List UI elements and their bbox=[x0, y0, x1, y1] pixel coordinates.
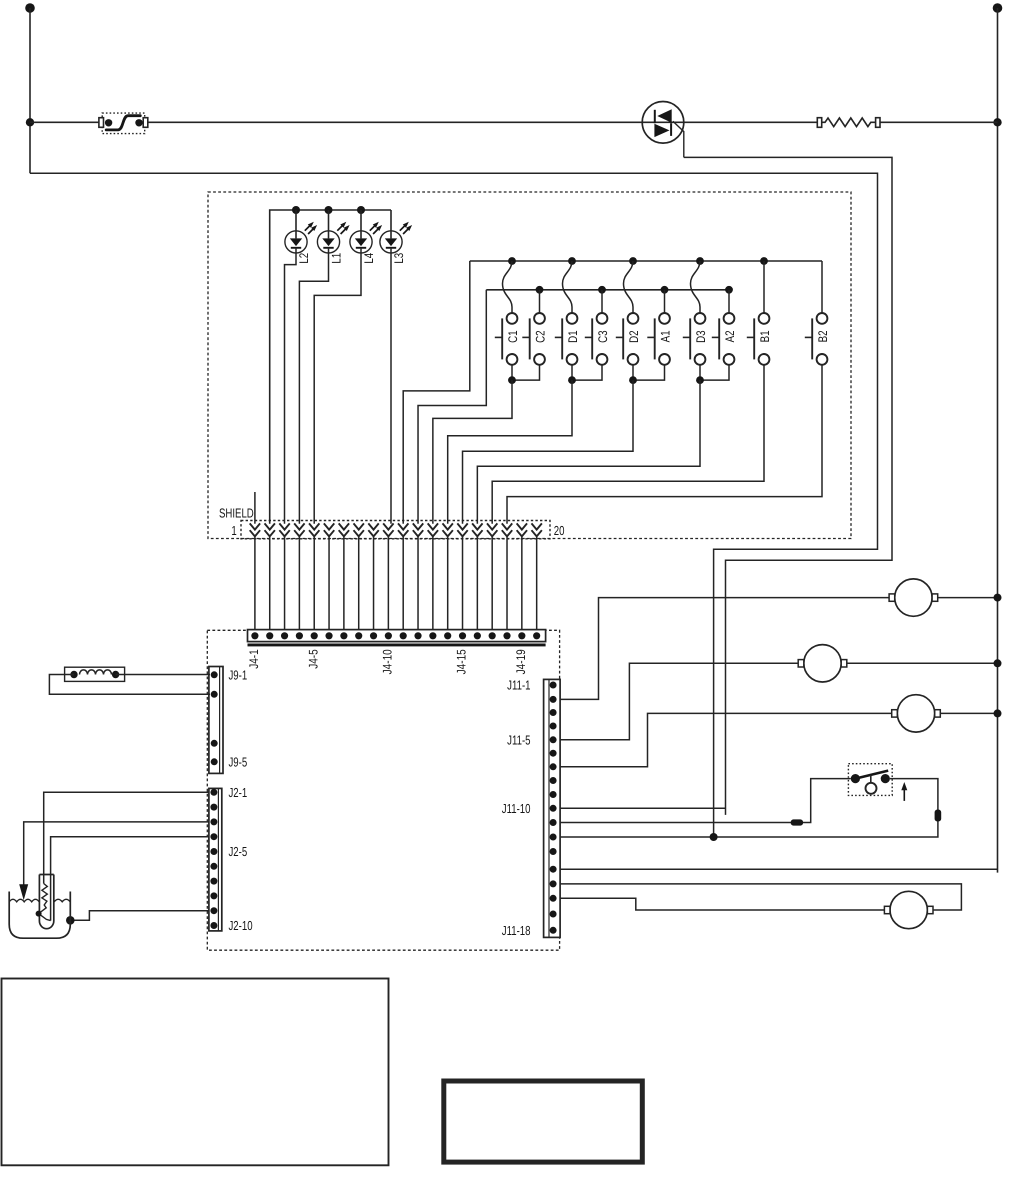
svg-text:D3: D3 bbox=[694, 330, 708, 343]
pin 8 chevron contact bbox=[354, 523, 364, 529]
svg-text:B2: B2 bbox=[816, 330, 830, 342]
pin 1 chevron contact bbox=[250, 523, 260, 529]
wire pin 7 to J4-7 bbox=[343, 536, 345, 635]
svg-text:J2-1: J2-1 bbox=[229, 785, 248, 800]
resistor element (zigzag) bbox=[822, 118, 876, 127]
wire pin 16 to J4-16 bbox=[476, 536, 478, 635]
resistor right terminal bbox=[876, 118, 880, 128]
wire C1 bottom stub bbox=[511, 365, 513, 380]
pin J4-17 bbox=[489, 632, 496, 639]
wire LED anode bus bbox=[270, 210, 391, 524]
wire J11-12 to thermostat bbox=[560, 779, 938, 837]
junction right bus / M2 bbox=[994, 659, 1002, 667]
switch A1 bbox=[647, 313, 670, 365]
wire J2-1 to probe bbox=[44, 792, 209, 883]
node top-left terminal bbox=[25, 3, 35, 13]
svg-text:B1: B1 bbox=[758, 330, 772, 342]
membrane keypad dashed outline bbox=[208, 192, 851, 539]
switch C2 bbox=[522, 313, 545, 365]
svg-text:C2: C2 bbox=[534, 330, 548, 343]
wire pin 1 to J4-1 bbox=[254, 536, 256, 635]
pin J2-4 bbox=[210, 833, 217, 840]
wire J11-10 from triac gate path bbox=[560, 807, 725, 809]
switch D3 bbox=[683, 313, 706, 365]
pin J2-2 bbox=[210, 804, 217, 811]
thermal fuse left contact dot bbox=[105, 119, 112, 126]
wire coil to J9-2 bbox=[49, 675, 210, 695]
thermal fuse TCO dotted outline bbox=[102, 113, 145, 134]
bowl arrow head bbox=[19, 884, 28, 900]
wire bus1 drop to B1 bbox=[763, 261, 765, 313]
pin 7 chevron contact bbox=[339, 523, 349, 529]
wire pin 13 to J4-13 bbox=[432, 536, 434, 635]
wire D3 bottom stub bbox=[699, 365, 701, 380]
svg-text:J2-10: J2-10 bbox=[229, 918, 253, 933]
water bowl outline bbox=[9, 892, 70, 939]
wire pin 11 to J4-11 bbox=[402, 536, 404, 635]
wire J2-9 to bowl wall bbox=[72, 911, 209, 921]
pin J2-6 bbox=[210, 863, 217, 870]
pin 5 chevron contact bbox=[309, 523, 319, 529]
thermostat left contact bbox=[851, 774, 860, 783]
svg-text:J4-5: J4-5 bbox=[306, 649, 320, 668]
junction right bus / top rail bbox=[993, 118, 1001, 126]
wire right bus to J11-14 bbox=[560, 868, 997, 870]
pin J11-10 bbox=[550, 805, 557, 812]
triac lower triangle bbox=[654, 124, 669, 137]
wire pair D3/A2 to pin 16 bbox=[477, 380, 700, 524]
pin J4-10 bbox=[385, 632, 392, 639]
svg-text:J11-18: J11-18 bbox=[502, 923, 531, 938]
pin J11-6 bbox=[550, 750, 557, 757]
LED L4 bbox=[350, 210, 382, 253]
wire top rail segment 1 bbox=[30, 121, 99, 123]
svg-text:C1: C1 bbox=[506, 330, 520, 343]
pin J4-15 bbox=[459, 632, 466, 639]
pin J11-16 bbox=[550, 895, 557, 902]
pin J2-7 bbox=[210, 878, 217, 885]
pin J4-4 bbox=[296, 632, 303, 639]
wire pin 9 to J4-9 bbox=[373, 536, 375, 635]
LED L3 bbox=[380, 210, 412, 253]
pin J11-14 bbox=[550, 866, 557, 873]
pin 11 chevron contact bbox=[398, 523, 408, 529]
wire switch bus row 2 bbox=[486, 289, 729, 291]
pin J4-20 bbox=[533, 632, 540, 639]
connector J4 strip bbox=[248, 630, 546, 642]
wire LED L2 cathode to connector bbox=[285, 248, 297, 524]
pin 2 chevron contact bbox=[265, 523, 275, 529]
pin J4-14 bbox=[444, 632, 451, 639]
motor M4 (drain pump) bbox=[884, 891, 933, 928]
triac lower bar bbox=[670, 123, 672, 136]
pin J2-10 bbox=[210, 922, 217, 929]
pin J9-1 bbox=[211, 671, 218, 678]
wire B1 to pin 17 bbox=[492, 365, 764, 524]
svg-text:20: 20 bbox=[554, 523, 565, 538]
pin J11-15 bbox=[550, 880, 557, 887]
pin 6 chevron contact bbox=[324, 523, 334, 529]
pin J2-8 bbox=[210, 892, 217, 899]
junction bus2 at C3 bbox=[598, 286, 606, 294]
connector J11 strip bbox=[544, 679, 561, 937]
connector J11 inner line bbox=[548, 679, 550, 937]
pin J4-2 bbox=[266, 632, 273, 639]
svg-text:J4-19: J4-19 bbox=[514, 649, 528, 674]
junction probe contact bbox=[36, 911, 42, 917]
pin 9 chevron contact bbox=[368, 523, 378, 529]
wire pin 18 to J4-18 bbox=[506, 536, 508, 635]
junction LED bus at x=361.0 bbox=[357, 206, 365, 214]
thermal fuse left terminal bbox=[99, 118, 104, 128]
pin J2-3 bbox=[210, 818, 217, 825]
junction J11-12 / left-bus feed bbox=[710, 833, 718, 841]
pin J11-1 bbox=[550, 682, 557, 689]
wire motor M1 to right bus bbox=[938, 597, 998, 599]
svg-text:L2: L2 bbox=[297, 253, 311, 264]
svg-text:L3: L3 bbox=[392, 253, 406, 264]
connector J4 lower band bbox=[248, 644, 546, 647]
pin J2-1 bbox=[210, 789, 217, 796]
junction right bus / M3 bbox=[994, 709, 1002, 717]
svg-text:J11-1: J11-1 bbox=[507, 678, 530, 693]
wire J11-11 to thermostat bbox=[560, 779, 851, 823]
wire pin 5 to J4-5 bbox=[313, 536, 315, 635]
wire pair D1/C3 to pin 14 bbox=[448, 380, 572, 524]
pin J9-4 bbox=[211, 740, 218, 747]
pin J4-16 bbox=[474, 632, 481, 639]
wire shield stub bbox=[254, 492, 256, 524]
wire bus2 drop to C3 bbox=[601, 290, 603, 313]
splice on thermostat right wire bbox=[935, 810, 941, 821]
wire pin 14 to J4-14 bbox=[447, 536, 449, 635]
junction bowl wall contact bbox=[66, 916, 75, 925]
switch D2 bbox=[616, 313, 639, 365]
wire bus2 left to pin 12 bbox=[418, 290, 486, 524]
pin 3 chevron contact bbox=[279, 523, 289, 529]
wire pin 4 to J4-4 bbox=[298, 536, 300, 635]
water surface left bbox=[9, 899, 39, 902]
triac upper bar bbox=[654, 110, 656, 123]
pin 12 chevron contact bbox=[413, 523, 423, 529]
wire bus2 drop to A2 bbox=[728, 290, 730, 313]
svg-text:D2: D2 bbox=[627, 330, 641, 343]
svg-text:J11-5: J11-5 bbox=[507, 732, 530, 747]
thermal fuse right terminal bbox=[143, 118, 148, 128]
wire A2 bottom to pair node bbox=[700, 365, 729, 380]
junction LED bus at x=328.5 bbox=[325, 206, 333, 214]
pin J11-9 bbox=[550, 791, 557, 798]
svg-text:D1: D1 bbox=[566, 330, 580, 343]
resistor left terminal bbox=[817, 118, 821, 128]
pin J11-8 bbox=[550, 777, 557, 784]
pin J11-2 bbox=[550, 696, 557, 703]
pin J4-1 bbox=[251, 632, 258, 639]
pin 20 chevron contact bbox=[531, 523, 541, 529]
wire bus1 S-jog to C1 bbox=[503, 261, 513, 313]
wire right bus vertical (top to J11-14 row) bbox=[997, 8, 999, 873]
interlock coil outline bbox=[65, 667, 125, 681]
node top-right terminal bbox=[993, 3, 1003, 13]
pin J11-12 bbox=[550, 834, 557, 841]
thermostat lever bbox=[855, 771, 888, 779]
wire top rail segment 3 bbox=[684, 121, 818, 123]
keypad tail connector dotted outline bbox=[241, 521, 550, 539]
pin 17 chevron contact bbox=[487, 523, 497, 529]
svg-text:1: 1 bbox=[231, 523, 236, 538]
pin 14 chevron contact bbox=[442, 523, 452, 529]
pin J2-5 bbox=[210, 848, 217, 855]
motor M1 (fan) bbox=[889, 579, 938, 616]
pin 18 chevron contact bbox=[502, 523, 512, 529]
thermal fuse right contact dot bbox=[135, 119, 142, 126]
wire bus1 S-jog to D3 bbox=[691, 261, 701, 313]
wire D2 bottom stub bbox=[632, 365, 634, 380]
wire bus2 drop to A1 bbox=[664, 290, 666, 313]
wire bus1 S-jog to D1 bbox=[563, 261, 573, 313]
wire C3 bottom to pair node bbox=[572, 365, 602, 380]
pin J11-7 bbox=[550, 763, 557, 770]
wire J2-4 to probe bbox=[51, 837, 209, 921]
wire A1 bottom to pair node bbox=[633, 365, 665, 380]
pin J11-5 bbox=[550, 736, 557, 743]
pin J4-8 bbox=[355, 632, 362, 639]
triac gate lead bbox=[673, 121, 684, 157]
wire bus1 drop to B2 bbox=[821, 261, 823, 313]
wire pin 15 to J4-15 bbox=[462, 536, 464, 635]
junction bus1 at D1 bbox=[568, 257, 576, 265]
junction pair C1/C2 bbox=[508, 376, 516, 384]
pin J4-6 bbox=[325, 632, 332, 639]
wire top rail segment 2 bbox=[148, 121, 684, 123]
pin 19 chevron contact bbox=[517, 523, 527, 529]
thermostat stem bbox=[870, 775, 872, 783]
triac upper triangle bbox=[657, 109, 671, 122]
junction left bus / top rail bbox=[26, 118, 34, 126]
svg-text:L4: L4 bbox=[362, 253, 376, 264]
wire pin 12 to J4-12 bbox=[417, 536, 419, 635]
pin 16 chevron contact bbox=[472, 523, 482, 529]
wire bus2 drop to C2 bbox=[539, 290, 541, 313]
control board dashed outline bbox=[207, 630, 559, 950]
pin J11-17 bbox=[550, 911, 557, 918]
wire pin 6 to J4-6 bbox=[328, 536, 330, 635]
thermostat bulb bbox=[866, 783, 877, 794]
interlock coil left contact bbox=[70, 671, 77, 678]
svg-text:J9-5: J9-5 bbox=[229, 754, 248, 769]
wire J2-3 to bowl arrow bbox=[24, 822, 209, 886]
junction bus1 at D2 bbox=[629, 257, 637, 265]
svg-text:L1: L1 bbox=[330, 253, 344, 264]
pin J11-13 bbox=[550, 848, 557, 855]
pin 10 chevron contact bbox=[383, 523, 393, 529]
junction bus2 at C2 bbox=[536, 286, 544, 294]
wire left bus vertical bbox=[29, 8, 31, 173]
thermostat dotted outline bbox=[848, 764, 892, 796]
wire pin 17 to J4-17 bbox=[491, 536, 493, 635]
junction pair D3/A2 bbox=[696, 376, 704, 384]
wire pin 10 to J4-10 bbox=[387, 536, 389, 635]
pin J11-18 bbox=[550, 927, 557, 934]
junction right bus / M1 bbox=[994, 594, 1002, 602]
pin J4-11 bbox=[400, 632, 407, 639]
wire LED L3 cathode to connector bbox=[390, 248, 392, 524]
svg-text:A1: A1 bbox=[659, 330, 673, 342]
wire LED L4 cathode to connector bbox=[314, 248, 361, 524]
pin J9-5 bbox=[211, 758, 218, 765]
motor M3 (blower) bbox=[892, 695, 941, 732]
pin J4-12 bbox=[414, 632, 421, 639]
interlock coil right contact bbox=[112, 671, 119, 678]
wire J11-5 to motor M2 bbox=[560, 663, 804, 740]
switch A2 bbox=[712, 313, 735, 365]
LED L2 bbox=[285, 210, 317, 253]
wire J11-15 to motor M4 bbox=[560, 884, 961, 910]
switch C1 bbox=[495, 313, 518, 365]
wire coil to J9-1 bbox=[116, 674, 210, 676]
wire triac gate to J11-10 (long path) bbox=[684, 157, 892, 815]
junction bus1 at D3 bbox=[696, 257, 704, 265]
callout box (thick border) bbox=[444, 1081, 643, 1162]
wire J11-16 to motor M4 bbox=[560, 898, 884, 910]
wire J11-2 to motor M1 bbox=[560, 598, 889, 700]
svg-text:A2: A2 bbox=[723, 330, 737, 342]
svg-text:J9-1: J9-1 bbox=[229, 667, 248, 682]
pin J9-2 bbox=[211, 691, 218, 698]
svg-text:J4-1: J4-1 bbox=[247, 649, 261, 668]
probe heater zigzag bbox=[39, 884, 51, 921]
pin 4 chevron contact bbox=[294, 523, 304, 529]
wire bus1 S-jog to D2 bbox=[624, 261, 634, 313]
thermostat actuation arrow bbox=[903, 790, 905, 801]
junction bus1 at C1 bbox=[508, 257, 516, 265]
water surface right bbox=[54, 899, 70, 902]
wire D1 bottom stub bbox=[571, 365, 573, 380]
junction LED bus at x=296.0 bbox=[292, 206, 300, 214]
wire pin 20 to J4-20 bbox=[536, 536, 538, 635]
switch B2 bbox=[805, 313, 828, 365]
pin J4-7 bbox=[340, 632, 347, 639]
pin J4-9 bbox=[370, 632, 377, 639]
wire top rail segment 4 bbox=[880, 121, 998, 123]
splice on J11-11 wire bbox=[791, 820, 802, 825]
wire C2 bottom to pair node bbox=[512, 365, 540, 380]
svg-text:J11-10: J11-10 bbox=[502, 801, 531, 816]
junction bus2 at A2 bbox=[725, 286, 733, 294]
pin 13 chevron contact bbox=[428, 523, 438, 529]
wire bus1 left to pin 11 bbox=[403, 261, 470, 524]
wire pair D2/A1 to pin 15 bbox=[463, 380, 633, 524]
thermal fuse element (S-curve) bbox=[106, 116, 140, 130]
LED L1 bbox=[317, 210, 349, 253]
pin J4-13 bbox=[429, 632, 436, 639]
svg-text:C3: C3 bbox=[596, 330, 610, 343]
junction bus2 at A1 bbox=[661, 286, 669, 294]
junction pair D2/A1 bbox=[629, 376, 637, 384]
connector J2 strip bbox=[209, 788, 222, 931]
switch D1 bbox=[555, 313, 578, 365]
wire switch bus row 1 bbox=[470, 260, 822, 262]
probe tube bbox=[39, 875, 53, 929]
svg-text:J4-10: J4-10 bbox=[381, 649, 395, 674]
switch B1 bbox=[747, 313, 770, 365]
pin 15 chevron contact bbox=[457, 523, 467, 529]
wire J11-7 to motor M3 bbox=[560, 713, 892, 766]
motor M2 (pump) bbox=[798, 645, 847, 682]
junction bus1 at B1 bbox=[760, 257, 768, 265]
wire pin 8 to J4-8 bbox=[358, 536, 360, 635]
svg-text:SHIELD: SHIELD bbox=[219, 505, 254, 520]
pin J11-11 bbox=[550, 819, 557, 826]
wire LED L1 cathode to connector bbox=[299, 248, 328, 524]
interlock coil winding bbox=[80, 670, 112, 675]
junction pair D1/C3 bbox=[568, 376, 576, 384]
pin J11-3 bbox=[550, 709, 557, 716]
wire pair C1/C2 to pin 13 bbox=[433, 380, 512, 524]
svg-text:J2-5: J2-5 bbox=[229, 844, 248, 859]
connector J2 inner line bbox=[217, 788, 219, 931]
pin J4-5 bbox=[311, 632, 318, 639]
switch C3 bbox=[585, 313, 608, 365]
wire motor M2 to right bus bbox=[847, 662, 998, 664]
connector J9 strip bbox=[209, 667, 223, 774]
wire pin 19 to J4-19 bbox=[521, 536, 523, 635]
pin J4-19 bbox=[518, 632, 525, 639]
wire left-bus feed to J11-12 node (long path) bbox=[30, 173, 878, 837]
triac body circle bbox=[642, 102, 684, 144]
pin J4-3 bbox=[281, 632, 288, 639]
pin J11-4 bbox=[550, 723, 557, 730]
legend box (empty) bbox=[2, 979, 389, 1166]
pin J2-9 bbox=[210, 907, 217, 914]
wire pin 3 to J4-3 bbox=[284, 536, 286, 635]
wire pin 2 to J4-2 bbox=[269, 536, 271, 635]
pin J4-18 bbox=[503, 632, 510, 639]
svg-text:J4-15: J4-15 bbox=[455, 649, 469, 674]
connector J9 inner line bbox=[219, 667, 221, 774]
wire motor M3 to right bus bbox=[940, 712, 997, 714]
thermostat right contact bbox=[881, 774, 890, 783]
wire B2 to pin 18 bbox=[507, 365, 822, 524]
